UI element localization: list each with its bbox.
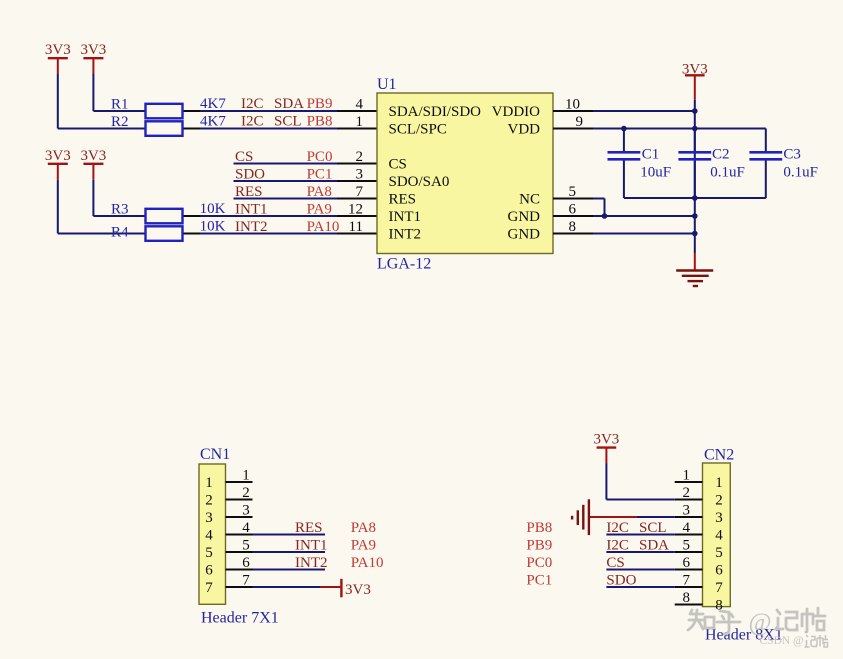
ground symbol (earth) [694,253,696,270]
svg-text:4: 4 [242,520,250,536]
svg-text:INT1: INT1 [389,209,422,225]
power 3V3 P6 (sideways at CN1 pin7) [320,586,340,588]
svg-text:2: 2 [715,493,723,509]
svg-text:2: 2 [205,493,213,509]
svg-text:5: 5 [715,545,723,561]
svg-text:3: 3 [715,510,723,526]
svg-text:3: 3 [683,503,691,519]
wire 3V3 vertical to ground (main vertical) [694,100,696,253]
wire ground to CN2 pin3 [637,516,675,518]
svg-text:INT1: INT1 [235,202,268,218]
svg-text:4: 4 [715,528,723,544]
svg-text:0.1uF: 0.1uF [710,165,745,181]
svg-text:10K: 10K [200,201,226,217]
resistor R2 4K7 [146,121,183,136]
U1 pin 5 stub (NC) [553,198,593,200]
wire 3V3 P2 to R1 [92,74,94,111]
power 3V3 P4 (mid-left second) [83,163,103,165]
svg-text:7: 7 [683,573,691,589]
svg-text:INT2: INT2 [235,219,268,235]
svg-text:PA8: PA8 [351,520,376,536]
svg-text:4: 4 [356,97,364,113]
svg-text:3: 3 [242,503,250,519]
svg-text:PA8: PA8 [307,184,332,200]
ground symbol (sideways, CN2 pin3) [588,499,590,535]
svg-text:RES: RES [295,520,323,536]
wire CN2 pin4 I2C SCL [606,534,674,536]
svg-text:SDA/SDI/SDO: SDA/SDI/SDO [389,104,482,120]
wire 3V3 to CN2 pin2 [605,464,607,500]
svg-text:4K7: 4K7 [200,114,226,130]
power 3V3 P3 (mid-left first) [48,163,68,165]
svg-text:CSDN @: CSDN @ [760,635,804,647]
svg-text:1: 1 [715,475,723,491]
wire CN2 pin5 I2C SDA [606,551,674,553]
svg-text:3V3: 3V3 [45,148,71,164]
svg-text:Header 7X1: Header 7X1 [201,610,279,627]
svg-text:CN2: CN2 [704,447,734,464]
connector CN1 body (Header 7X1) [199,464,226,604]
svg-text:@: @ [749,609,772,636]
wire CN1 pin6 INT2 [253,569,326,571]
svg-text:0.1uF: 0.1uF [783,165,818,181]
svg-text:NC: NC [519,192,540,208]
connector CN2 body (Header 8X1) [703,463,731,607]
wire RES net to U1 pin 7 [234,198,378,200]
svg-text:I2C: I2C [606,538,629,554]
node junction VDDIO/3V3 [692,108,698,114]
svg-text:SDO: SDO [606,573,636,589]
svg-text:C3: C3 [783,147,801,163]
svg-text:RES: RES [235,184,263,200]
svg-text:10: 10 [565,97,580,113]
svg-text:1: 1 [205,475,213,491]
wire R4 to U1 pin 11 (INT2) [183,233,378,235]
node junction VDD rail [692,126,698,132]
wire SDO net to U1 pin 3 [234,180,378,182]
svg-text:2: 2 [242,485,250,501]
wire CN1 pin7 to 3V3 [253,586,321,588]
svg-text:U1: U1 [377,76,397,93]
svg-text:7: 7 [205,580,213,596]
svg-text:RES: RES [389,192,417,208]
svg-text:LGA-12: LGA-12 [377,256,431,273]
svg-text:PA9: PA9 [351,538,376,554]
svg-text:CS: CS [606,555,624,571]
svg-text:9: 9 [576,114,584,130]
resistor R4 10K [146,226,183,241]
svg-text:4: 4 [683,520,691,536]
svg-text:PB8: PB8 [307,114,333,130]
svg-text:6: 6 [242,555,250,571]
svg-text:PC1: PC1 [307,167,333,183]
svg-text:R3: R3 [111,202,129,218]
svg-text:8: 8 [683,590,691,606]
capacitor C1 10uF [623,129,625,152]
resistor R3 10K [146,209,183,224]
power 3V3 P1 (top-left first) [48,57,68,59]
wire VDDIO to 3V3 [593,110,695,112]
svg-text:6: 6 [569,202,577,218]
wire GND pin6 to ground rail [593,215,695,217]
svg-text:GND: GND [508,227,541,243]
svg-text:SDA: SDA [639,538,669,554]
svg-text:3V3: 3V3 [45,42,71,58]
svg-text:3V3: 3V3 [80,42,106,58]
svg-text:5: 5 [205,545,213,561]
wire 3V3 P3 to R4 [57,180,59,234]
svg-text:I2C: I2C [241,96,264,112]
wire CN1 pin5 INT1 [253,551,326,553]
power 3V3 P5 (above C2) [685,74,705,76]
watermark zhihu @jitie [688,610,740,634]
svg-text:C2: C2 [712,147,730,163]
svg-text:R1: R1 [111,97,129,113]
svg-text:6: 6 [205,563,213,579]
svg-text:CS: CS [389,157,407,173]
svg-text:INT2: INT2 [389,227,422,243]
wire NC to GND net [593,198,605,200]
svg-text:PA9: PA9 [307,202,332,218]
svg-text:7: 7 [715,580,723,596]
U1 pin 8 stub (GND) [553,233,593,235]
svg-text:SCL: SCL [274,114,302,130]
svg-text:7: 7 [356,184,364,200]
wire CN2 pin6 CS [606,569,674,571]
svg-text:4K7: 4K7 [200,96,226,112]
capacitor C3 0.1uF [765,129,767,152]
svg-text:10uF: 10uF [640,165,671,181]
svg-text:I2C: I2C [606,520,629,536]
wire R1 to U1 pin 4 [183,110,378,112]
svg-text:PA10: PA10 [307,219,340,235]
op-amp U1 body (LGA-12 sensor) [377,93,553,254]
svg-text:5: 5 [683,538,691,554]
svg-text:INT2: INT2 [295,555,328,571]
svg-text:PC0: PC0 [526,555,552,571]
svg-text:GND: GND [508,209,541,225]
svg-text:PA10: PA10 [351,555,384,571]
svg-text:VDDIO: VDDIO [492,104,540,120]
svg-text:I2C: I2C [241,114,264,130]
svg-text:R4: R4 [111,225,129,241]
svg-text:3: 3 [205,510,213,526]
wire CS net to U1 pin 2 [234,163,378,165]
node junction bottom rail / vertical [692,195,698,201]
svg-text:3V3: 3V3 [345,582,371,598]
svg-text:SDO: SDO [235,167,265,183]
svg-text:C1: C1 [642,147,660,163]
svg-text:6: 6 [715,563,723,579]
svg-text:R2: R2 [111,114,129,130]
wire 3V3 P4 to R3 [92,180,94,216]
svg-text:1: 1 [242,468,250,484]
svg-text:2: 2 [356,149,364,165]
wire CN2 pin7 SDO [606,586,674,588]
power 3V3 P2 (top-left second) [83,57,103,59]
svg-text:PB9: PB9 [526,538,552,554]
wire capacitor bottom rail [624,197,766,199]
wire CN1 pin4 RES [253,534,326,536]
U1 pin 6 stub (GND) [553,215,593,217]
wire R2 to U1 pin 1 [183,128,378,130]
svg-text:CS: CS [235,149,253,165]
wire VDD rail to caps [593,128,766,130]
svg-text:4: 4 [205,528,213,544]
wire 3V3 P1 to R2 [57,74,59,129]
svg-text:7: 7 [242,573,250,589]
svg-text:PC0: PC0 [307,149,333,165]
svg-text:PB9: PB9 [307,96,333,112]
svg-text:10K: 10K [200,219,226,235]
node junction pin6 / vertical [692,213,698,219]
svg-text:SCL: SCL [639,520,667,536]
capacitor C2 0.1uF [694,129,696,152]
node junction pin8 / vertical [692,231,698,237]
node junction NC-GND [602,213,608,219]
svg-text:3V3: 3V3 [682,61,708,77]
node junction C1 top [621,126,627,132]
wire GND pin8 to ground rail [593,233,695,235]
svg-text:1: 1 [683,468,691,484]
svg-text:INT1: INT1 [295,538,328,554]
svg-text:3V3: 3V3 [593,432,619,448]
svg-text:5: 5 [242,538,250,554]
power 3V3 P7 (above CN2) [597,446,617,448]
U1 pin 10 stub [553,110,593,112]
svg-text:12: 12 [348,202,363,218]
svg-text:SDA: SDA [274,96,304,112]
wire R3 to U1 pin 12 (INT1) [183,215,378,217]
svg-text:11: 11 [349,219,363,235]
svg-text:2: 2 [683,485,691,501]
svg-text:SCL/SPC: SCL/SPC [389,122,447,138]
svg-text:3V3: 3V3 [80,148,106,164]
resistor R1 4K7 [146,104,183,119]
svg-text:6: 6 [683,555,691,571]
svg-text:CN1: CN1 [200,446,230,463]
U1 pin 9 stub [553,128,593,130]
svg-text:PB8: PB8 [526,520,552,536]
svg-text:8: 8 [569,219,577,235]
svg-text:VDD: VDD [508,122,541,138]
svg-text:1: 1 [356,114,364,130]
svg-text:SDO/SA0: SDO/SA0 [389,174,450,190]
svg-text:3: 3 [356,167,364,183]
svg-text:5: 5 [569,184,577,200]
svg-text:PC1: PC1 [526,573,552,589]
